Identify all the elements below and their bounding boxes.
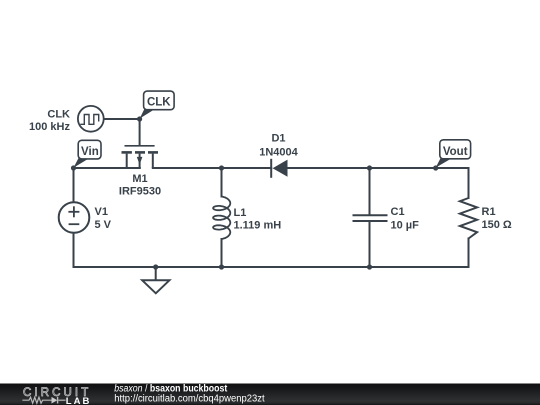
transistor M1 p-MOSFET	[122, 146, 159, 168]
wire gate	[139, 119, 141, 145]
flag Vout	[436, 140, 471, 168]
svg-text:CLK: CLK	[147, 96, 171, 108]
diode D1	[271, 159, 287, 178]
svg-text:Vin: Vin	[81, 146, 99, 158]
svg-text:1.119 mH: 1.119 mH	[234, 219, 282, 231]
label L1 1.119 mH	[234, 207, 282, 231]
wire top-right corner down to R1	[468, 168, 470, 198]
node L1 bottom junction dot	[219, 264, 224, 269]
svg-text:R1: R1	[482, 206, 496, 218]
wire L1 bottom	[221, 239, 223, 267]
svg-text:100 kHz: 100 kHz	[29, 121, 70, 133]
node Vin junction dot	[71, 165, 76, 170]
logo wire and resistor	[22, 397, 51, 403]
wire ground stub	[155, 267, 157, 280]
resistor R1	[460, 198, 477, 239]
label V1 5 V	[95, 206, 112, 231]
svg-text:CLK: CLK	[47, 108, 70, 120]
svg-text:M1: M1	[132, 173, 147, 185]
svg-text:D1: D1	[271, 132, 285, 144]
wire V1 minus to bottom rail	[73, 234, 75, 268]
svg-text:L1: L1	[234, 207, 247, 219]
flag Vin	[74, 140, 102, 168]
wire diode to top-right corner	[288, 167, 469, 169]
label R1 150 ohm	[482, 206, 512, 231]
wire C1 top	[369, 168, 371, 214]
svg-text:V1: V1	[95, 206, 108, 218]
svg-text:5 V: 5 V	[95, 219, 112, 231]
svg-text:Vout: Vout	[443, 146, 468, 158]
label C1 10 uF	[391, 206, 420, 232]
wire Vin node down to V1 plus	[73, 168, 75, 202]
label CLK 100 kHz	[29, 108, 70, 132]
wire clock to gate node	[104, 118, 140, 120]
flag CLK	[140, 91, 175, 119]
wire bottom rail	[74, 266, 469, 268]
node Vout junction dot	[433, 165, 438, 170]
node ground junction dot	[153, 264, 158, 269]
wire R1 to bottom rail	[468, 239, 470, 268]
svg-text:10 µF: 10 µF	[391, 220, 420, 232]
node CLK junction dot	[137, 116, 142, 121]
svg-text:1N4004: 1N4004	[259, 146, 298, 158]
svg-text:IRF9530: IRF9530	[119, 186, 161, 198]
node C1 bottom junction dot	[367, 264, 372, 269]
node C1 top junction dot	[367, 165, 372, 170]
voltage source V1	[59, 202, 90, 233]
wire MOSFET drain to diode	[153, 167, 271, 169]
ground	[142, 280, 169, 293]
svg-text:150 Ω: 150 Ω	[482, 219, 512, 231]
wire L1 top	[221, 168, 223, 197]
label M1 IRF9530	[119, 173, 161, 198]
svg-text:LAB: LAB	[66, 396, 92, 405]
label D1 1N4004	[259, 132, 298, 158]
clock source symbol	[78, 106, 104, 132]
svg-text:C1: C1	[391, 206, 405, 218]
wire Vin node to MOSFET source	[74, 167, 140, 169]
svg-text:http://circuitlab.com/cbq4pwen: http://circuitlab.com/cbq4pwenp23zt	[114, 394, 265, 405]
wire C1 bottom	[369, 222, 371, 267]
logo diode	[52, 397, 58, 404]
node L1 top junction dot	[219, 165, 224, 170]
capacitor C1	[353, 215, 388, 221]
footer bar	[0, 384, 540, 405]
inductor L1	[213, 197, 230, 240]
